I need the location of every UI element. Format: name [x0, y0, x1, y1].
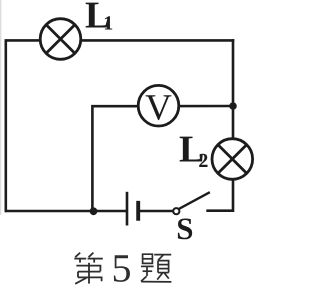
svg-text:1: 1	[103, 13, 113, 35]
svg-text:S: S	[176, 211, 193, 246]
svg-text:2: 2	[198, 150, 208, 172]
svg-text:V: V	[145, 88, 172, 129]
svg-text:5: 5	[112, 246, 132, 289]
